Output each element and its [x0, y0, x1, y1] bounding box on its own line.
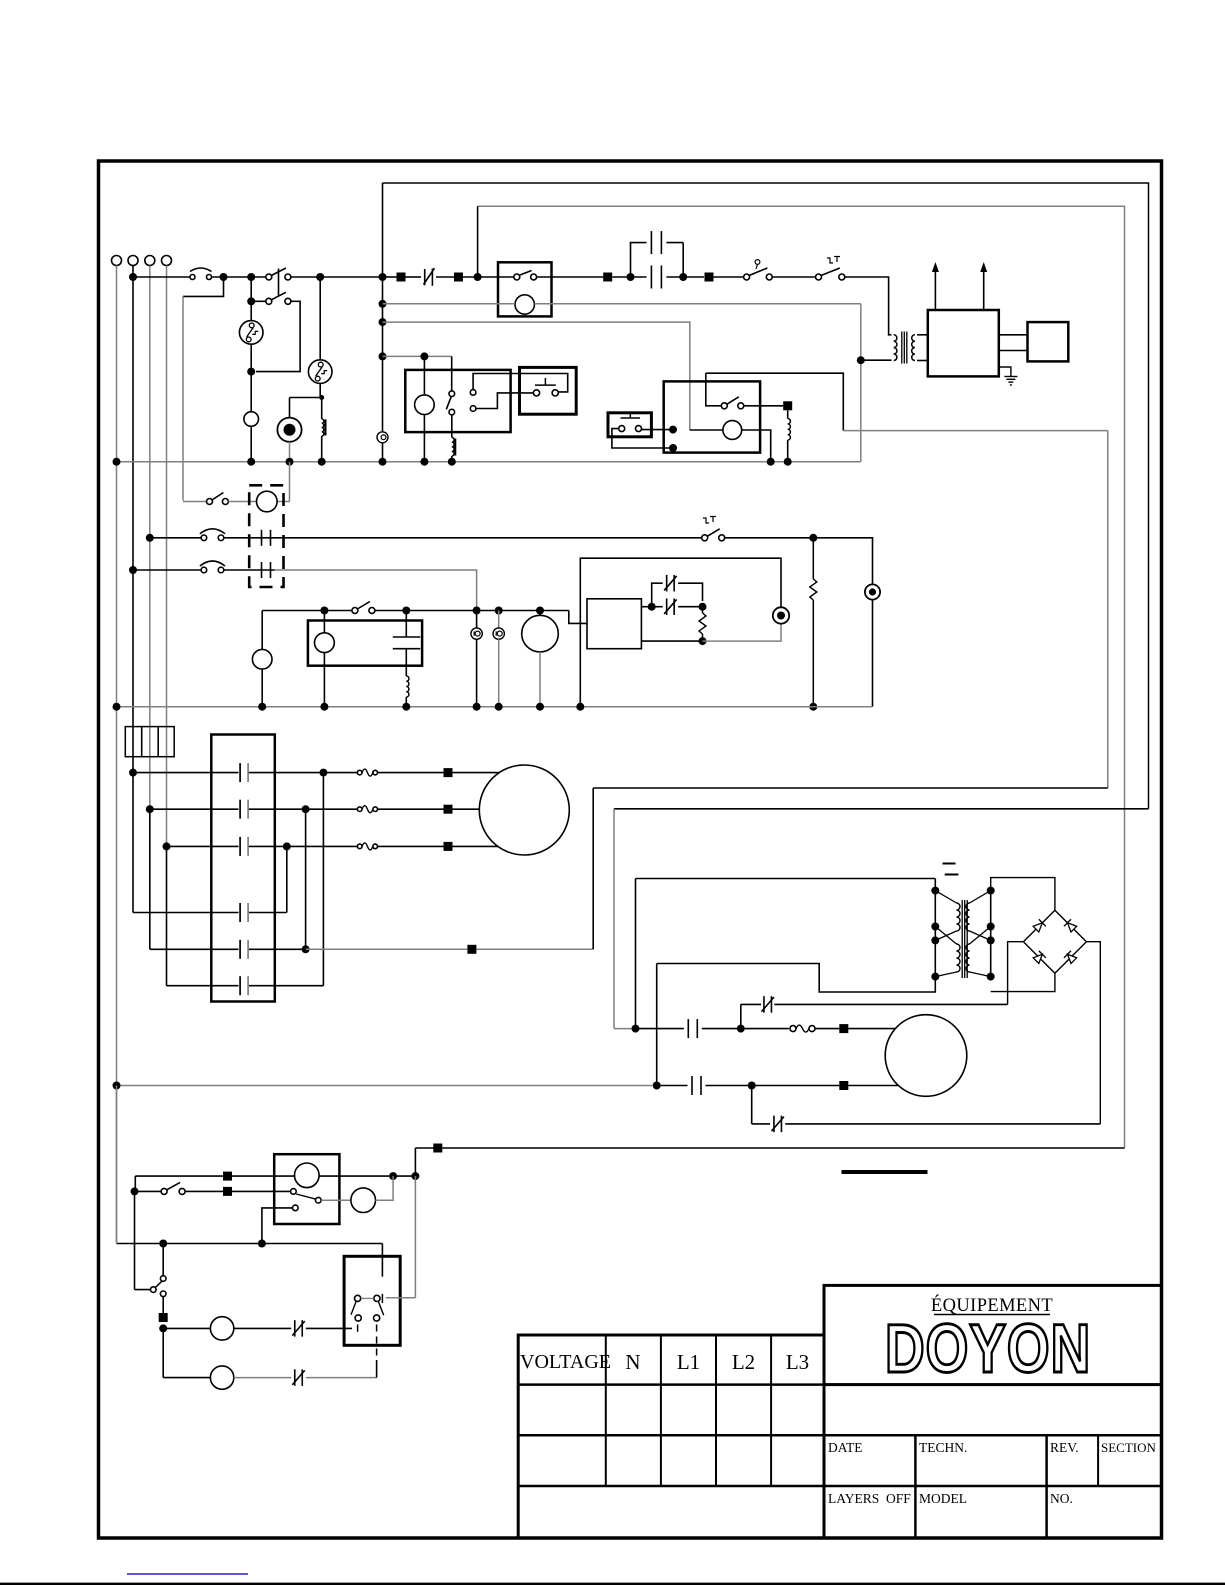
wire M4 row2 a — [657, 1085, 688, 1087]
contactor contact C2b — [650, 231, 652, 254]
breaker contact NC7 — [294, 1369, 296, 1386]
wire K6 row1 right — [319, 1175, 415, 1177]
junction bus x477 — [474, 273, 482, 281]
wire star link right A-F — [322, 773, 324, 986]
wire M4 branch up — [740, 1004, 742, 1028]
wire thermo TH1 drop — [250, 277, 252, 321]
wire K4 contact left riser — [706, 373, 722, 406]
switch S2 pump — [183, 501, 207, 503]
transformer T1 core — [901, 332, 903, 364]
transformer T2 right taps — [970, 891, 991, 903]
junction row1 x813 — [809, 534, 817, 542]
junction bus x683 — [679, 273, 687, 281]
wire row A motor lead — [453, 772, 500, 774]
wire top frame line 2 — [478, 206, 1125, 1148]
connector square J8 — [433, 1144, 442, 1153]
wire pump motor leads — [228, 501, 256, 503]
wire DS1 right feed grey — [414, 1176, 416, 1298]
wire lamp row1 b — [234, 1327, 291, 1329]
wire bridge AC2 — [991, 973, 1055, 991]
lamp LP5 — [210, 1366, 233, 1389]
transformer T2 left rail dots — [931, 887, 939, 895]
wire bus seg 5 — [537, 276, 604, 278]
pump motor M3 — [257, 491, 278, 512]
relay coil K3 with core — [321, 398, 323, 420]
wire row2 left — [133, 569, 201, 571]
wire row1 mid — [224, 537, 703, 539]
junction row2 L1 — [129, 566, 137, 574]
thermostat TS1 glyph — [755, 260, 760, 265]
junctions line y610 — [320, 607, 328, 615]
resistor R1 — [812, 538, 814, 579]
wire bridge DC right — [1086, 942, 1100, 1124]
connector square J3 — [603, 273, 612, 282]
junction M4 row1 — [737, 1025, 745, 1033]
thermal fuse FB — [357, 807, 362, 812]
relay K1 contact — [514, 274, 520, 280]
wire net y808 — [614, 808, 1149, 810]
wire bus seg 8 — [714, 276, 744, 278]
junction A2 lower — [699, 637, 707, 645]
wire K6 row2 right — [232, 1190, 291, 1192]
wire K4 coil left lead — [690, 429, 723, 431]
wire M2 to bus — [539, 652, 541, 707]
wire L3 feeder vertical — [166, 266, 168, 847]
wire main bus segment 1 — [133, 276, 190, 278]
junction NC out — [699, 603, 707, 611]
control box A2 — [587, 599, 641, 649]
door switch DS1 contacts — [355, 1295, 361, 1301]
svg-text:TECHN.: TECHN. — [919, 1440, 967, 1455]
wire L1 feeder vertical — [132, 266, 134, 773]
relay K4 contact — [721, 403, 727, 409]
breaker contact NC5 — [773, 1116, 775, 1133]
junction row1 L2 — [146, 534, 154, 542]
contactor C4 enclosure — [211, 735, 274, 1002]
wire PL1 to neutral bus — [289, 442, 291, 462]
relay K4 enclosure — [664, 381, 760, 452]
breaker contact NC6 — [294, 1320, 296, 1337]
transformer T2 polarity dashes — [943, 863, 956, 865]
door switch DS1 box — [344, 1256, 400, 1345]
wire row B to motor — [378, 808, 444, 810]
thermal fuse FM4 — [790, 1026, 796, 1032]
relay K5 coil — [315, 633, 335, 653]
wire S5 bottom lead — [162, 1297, 164, 1313]
junction transformer T1 primary — [857, 356, 865, 364]
table row lines — [518, 1383, 1161, 1386]
wire K2 coil bottom stub — [423, 415, 425, 462]
wire coil line y304 left — [383, 303, 516, 305]
relay K2 inductor — [451, 415, 453, 438]
wire M4 row1 lead — [848, 1028, 895, 1030]
connector square JE — [467, 945, 476, 954]
transformer T1 secondary winding — [912, 335, 915, 361]
relay K6 enclosure — [274, 1154, 339, 1224]
electrode arrow 2 — [983, 272, 985, 310]
drawing border frame — [99, 161, 1162, 1538]
indicator A1 on riser — [377, 432, 388, 443]
wire net y430 grey — [843, 430, 1108, 432]
hyperlink underline — [127, 1573, 248, 1575]
terminal dot K4-b — [669, 444, 677, 452]
terminal N — [112, 256, 122, 266]
wire TH2 bottom lead — [319, 383, 321, 397]
wire drop to indicator PL1 — [289, 398, 291, 418]
wire row F — [167, 985, 239, 987]
wire K6 NO to y1243 — [262, 1208, 293, 1244]
terminal L2 — [145, 256, 155, 266]
wire row1 to x872 — [725, 538, 873, 585]
connector square JB — [444, 805, 453, 814]
relay K2 switch — [449, 391, 455, 397]
lamp LP3 — [351, 1188, 376, 1213]
terminal dot K4-a — [669, 426, 677, 434]
wire M4 row1 c — [815, 1028, 839, 1030]
transformer T2 winding left lower — [957, 944, 961, 972]
wire PL5 loop — [580, 558, 781, 707]
wire net y373 to right — [706, 373, 844, 430]
thermostat TS3 glyph — [703, 518, 709, 523]
wire bus seg 4b — [436, 276, 454, 278]
thermal protector TH1 — [239, 321, 263, 345]
junction row C left — [163, 842, 171, 850]
junction bus x630 — [627, 273, 635, 281]
contactor C4 contact A — [239, 763, 241, 782]
wire K5 coil stubs — [323, 611, 325, 633]
relay K1 enclosure — [498, 262, 552, 316]
door switch DS1 blades — [351, 1301, 356, 1315]
fuse F2 — [142, 727, 159, 757]
junctions neutral bus y706 — [113, 703, 121, 711]
junction main bus B — [316, 273, 324, 281]
junction main bus A — [129, 273, 137, 281]
contact C2b bypass wires — [631, 243, 647, 277]
wire jog to control box — [569, 611, 587, 624]
connector square J4 — [705, 273, 714, 282]
junction S1 pole2 — [247, 297, 255, 305]
switch TS3 — [702, 535, 708, 541]
wire star link left B-E — [149, 809, 151, 949]
junctions neutral bus y462 — [113, 458, 121, 466]
breaker CB1 — [190, 275, 195, 280]
relay K2 coil — [415, 395, 435, 415]
wire row A to motor — [378, 772, 444, 774]
contactor contact C5a — [687, 1019, 689, 1038]
junction TH2 node — [319, 395, 324, 400]
wire row B motor lead — [453, 808, 480, 810]
bridge diode D1 — [1032, 919, 1045, 932]
connector square J5 — [783, 401, 792, 410]
wire lamp row2 drop — [162, 1328, 164, 1377]
wire neutral bus y462 — [117, 461, 861, 463]
ignition module box — [928, 310, 999, 376]
contactor C1 dashed box — [249, 485, 283, 587]
wire bus to transformer T1 — [845, 277, 892, 335]
switch S3 — [352, 608, 358, 614]
wire PL4 to bus — [498, 639, 500, 706]
wire bus seg 9 — [772, 276, 815, 278]
junctions K6 row1 — [389, 1172, 397, 1180]
wire motor M2 stub — [539, 611, 541, 616]
lamp LP2 — [252, 649, 272, 669]
wire DS1 top stub — [381, 1244, 383, 1277]
wire riser x382 lower — [382, 443, 384, 462]
relay K6 contact NC terminal — [291, 1189, 297, 1195]
connector square J2 — [454, 273, 463, 282]
terminal L3 — [162, 256, 172, 266]
wire feed riser x614 — [613, 809, 615, 1029]
wire lamp row1 — [163, 1327, 210, 1329]
logo DOYON — [885, 1310, 1091, 1387]
wire K6 row2 mid — [185, 1190, 223, 1192]
wire M4 row2 b — [706, 1085, 840, 1087]
wire right rail x1107 — [1107, 431, 1109, 788]
wire row A right — [249, 772, 358, 774]
wire thermo TH2 drop — [319, 277, 321, 360]
svg-text:REV.: REV. — [1050, 1440, 1079, 1455]
wire LP2 to bus — [261, 669, 263, 707]
wire net y1243 — [117, 1243, 383, 1245]
wire pump feeder vertical — [182, 296, 184, 500]
thermal protector TH2 — [308, 360, 332, 384]
lamp LP4 — [210, 1317, 233, 1340]
wire star link right C-D — [286, 846, 288, 912]
switch S4 — [161, 1188, 167, 1194]
thick mark under motor M4 — [842, 1170, 928, 1174]
relay K1 coil — [515, 295, 534, 314]
breaker contact NC4 — [763, 996, 765, 1013]
relay K6 changeover — [316, 1197, 322, 1203]
ground symbol — [999, 367, 1011, 376]
capacitor C3 — [393, 636, 421, 638]
svg-text:NO.: NO. — [1050, 1491, 1073, 1506]
wire M4 branch down — [751, 1086, 753, 1124]
junction K6 row2 — [131, 1187, 139, 1195]
contactor C4 contact B — [239, 800, 241, 819]
indicator lamp PL5 — [773, 607, 789, 623]
contactor C1 contact 1 — [261, 530, 263, 546]
electrode arrow 1 — [934, 272, 936, 310]
relay K2 terminal lower — [470, 406, 476, 412]
wire PL3 to bus — [476, 639, 478, 706]
title block right dividers — [914, 1435, 917, 1538]
pushbutton PB1 — [533, 390, 539, 396]
wire row2 right — [275, 570, 477, 611]
svg-text:LAYERS OFF: LAYERS OFF — [828, 1491, 911, 1506]
wire lamp PL4 link — [498, 611, 500, 628]
wire S1 pole2 return — [256, 301, 300, 371]
wire row E — [150, 948, 239, 950]
pushbutton PB2 box — [608, 413, 651, 437]
wire lamp row1 c — [306, 1327, 352, 1329]
junction row C right — [283, 842, 291, 850]
contactor C4 contact E — [239, 940, 241, 959]
contactor C4 contact C — [239, 837, 241, 856]
junction net y356 — [420, 352, 428, 360]
wire row2 mid — [224, 569, 275, 571]
wire M4 row1 b — [702, 1028, 789, 1030]
contactor C4 contact D — [239, 903, 241, 922]
wire net y356 — [383, 355, 452, 357]
wire lamp row2 b — [234, 1377, 291, 1379]
wire bus seg 7 — [666, 276, 704, 278]
wire coil line y304 right — [534, 303, 860, 305]
switch S5 — [160, 1276, 166, 1282]
lamp PL4 — [493, 628, 504, 639]
transformer T2 winding right lower — [966, 944, 970, 972]
wire LP3 up — [376, 1176, 394, 1200]
table column dividers — [605, 1335, 607, 1486]
junction riser x382 — [379, 300, 387, 308]
wire to indicator PL5 — [703, 624, 782, 641]
contactor C4 contact F — [239, 976, 241, 995]
relay K2 enclosure — [405, 370, 510, 432]
wire lamp PL3 link — [476, 611, 478, 628]
junction M4 row1 in — [632, 1025, 640, 1033]
relay K5 enclosure — [308, 621, 422, 666]
wire LP1 to neutral bus — [250, 426, 252, 461]
indicator lamp PL1 — [277, 418, 301, 442]
transformer T1 primary winding — [894, 335, 897, 361]
motor M4 — [885, 1015, 967, 1097]
wire bridge DC left — [1008, 942, 1024, 1005]
svg-text:DATE: DATE — [828, 1440, 863, 1455]
wire bus seg 6 — [612, 276, 646, 278]
wire K4 coil right lead — [742, 430, 771, 462]
wire K6 row2 left — [135, 1190, 162, 1192]
wire module to burner box — [999, 334, 1028, 336]
junction S5 out — [159, 1324, 167, 1332]
wire line y610 — [262, 610, 352, 612]
wire star link left C-F — [166, 846, 168, 985]
door switch DS1 link — [376, 1325, 378, 1361]
relay K2 terminal upper — [470, 390, 476, 396]
junction row A right — [319, 769, 327, 777]
inductor L2 — [405, 649, 407, 676]
bridge rectifier diamond — [1023, 910, 1086, 973]
wire NC pair lower — [655, 606, 663, 608]
wire lamp LP2 branch — [261, 611, 263, 650]
junction M4 row2 — [748, 1082, 756, 1090]
junction row E — [302, 945, 310, 953]
wire K2 coil top stub — [423, 356, 425, 395]
breaker contact NC2 — [666, 598, 668, 615]
wire bus seg 4a — [386, 276, 397, 278]
wire row C left — [167, 845, 239, 847]
wire L2 feeder vertical — [149, 266, 151, 810]
wire K6 common to lamp — [321, 1199, 351, 1201]
bridge diode D3 — [1032, 951, 1045, 964]
wire A2 lower lead — [641, 640, 699, 642]
wire DC line y1004 — [741, 1003, 761, 1005]
wire NC pair upper — [652, 583, 663, 607]
junction row A left — [129, 769, 137, 777]
wire K2 terminal upper loop — [473, 374, 568, 392]
svg-text:L3: L3 — [786, 1350, 809, 1374]
breaker contact NC1 — [424, 269, 426, 285]
wire row C motor lead — [453, 845, 500, 847]
svg-text:DOYON: DOYON — [885, 1310, 1091, 1387]
transformer T2 core — [961, 900, 963, 978]
page footer rule — [0, 1583, 1225, 1585]
pushbutton PB2 — [619, 426, 625, 432]
title block DOYON box — [824, 1285, 1162, 1384]
junctions net y1243 — [159, 1240, 167, 1248]
wire PL2 to bus — [872, 600, 874, 707]
svg-text:MODEL: MODEL — [919, 1491, 967, 1506]
fuse F1 — [125, 727, 141, 757]
wire secondary return riser x656 — [656, 964, 658, 1086]
switch S1 gang link — [278, 269, 280, 297]
wire star link left A-D — [132, 773, 134, 913]
wire row A left — [133, 772, 239, 774]
wire return riser x593 — [592, 788, 594, 949]
wire K6 row1 mid — [232, 1175, 295, 1177]
junction A2 out — [648, 603, 656, 611]
contactor contact C5b — [691, 1076, 693, 1095]
wire PB2 left lead — [612, 429, 669, 448]
transformer T2 left taps — [935, 891, 956, 903]
wire main bus segment 3 — [291, 276, 383, 278]
relay K4 inductor — [787, 410, 789, 418]
junction R1 bus — [809, 703, 817, 711]
wire net y322 — [383, 322, 690, 430]
wire x134 drop — [134, 1191, 136, 1289]
wire riser x382 — [382, 183, 384, 432]
thermostat switch TS1 — [744, 274, 750, 280]
wire row D — [133, 912, 239, 914]
wire riser x477 — [477, 206, 479, 277]
title block voltage table outline — [518, 1335, 824, 1538]
transformer T2 left rail — [934, 891, 936, 977]
wire row B left — [150, 808, 239, 810]
connector square J6 — [839, 1024, 848, 1033]
wire A2 right top lead — [641, 606, 649, 608]
wire row C right — [249, 845, 358, 847]
wire TH1 to lamp — [250, 344, 252, 412]
transformer T2 winding right upper — [966, 903, 970, 931]
svg-text:N: N — [625, 1350, 640, 1374]
wire N feeder vertical — [116, 266, 118, 1244]
terminal L1 — [128, 256, 138, 266]
thermal fuse FA — [357, 770, 362, 775]
motor M2 — [522, 615, 559, 652]
svg-text:L1: L1 — [677, 1350, 700, 1374]
connector square JC — [444, 842, 453, 851]
relay K6 heater — [295, 1163, 320, 1188]
lamp PL3 — [471, 628, 482, 639]
wire star link right B-E — [305, 809, 307, 949]
junction row B left — [146, 805, 154, 813]
pushbutton PB1 box — [520, 367, 577, 414]
wire S5 top lead — [162, 1244, 164, 1276]
junctions M4 row2 — [113, 1082, 121, 1090]
wire row E return grey — [306, 948, 468, 950]
wire M4 row2 lead — [848, 1085, 898, 1087]
wire x860 drop — [860, 304, 862, 462]
transformer T2 right rail dots — [987, 887, 995, 895]
wire K2 terminal lower jog — [476, 393, 534, 409]
wire PB2 right lead — [642, 429, 670, 431]
relay K4 coil — [723, 421, 742, 440]
wire row1 left — [150, 537, 201, 539]
transformer T2 right rail — [990, 891, 992, 977]
svg-text:SECTION: SECTION — [1101, 1440, 1157, 1455]
wire row C to motor — [378, 845, 444, 847]
wire net y1148 — [415, 1147, 1124, 1149]
svg-text:VOLTAGE: VOLTAGE — [520, 1351, 611, 1373]
